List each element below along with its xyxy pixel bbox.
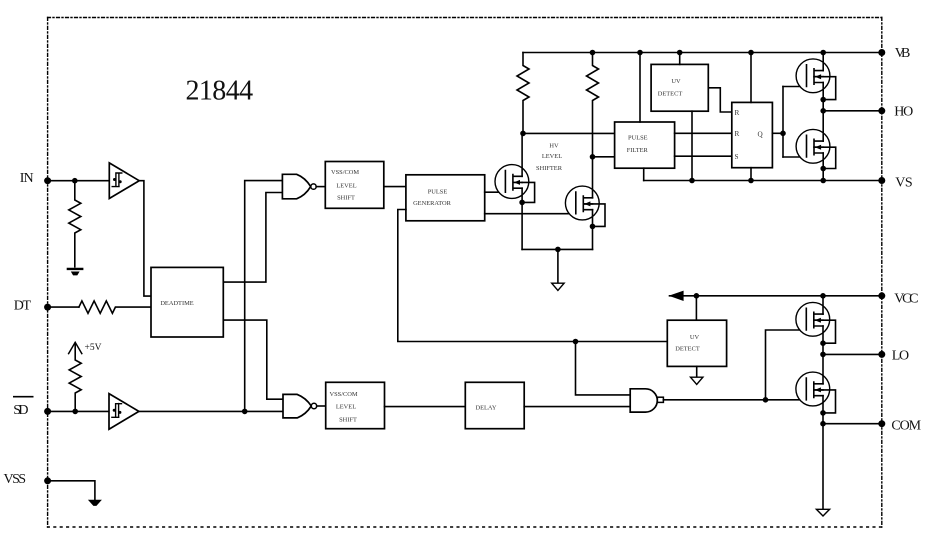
svg-text:GENERATOR: GENERATOR <box>413 200 452 207</box>
wire latch Q output <box>772 132 783 134</box>
svg-text:S: S <box>735 153 739 161</box>
wire PG out2 to Q2 gate <box>485 213 576 215</box>
Q1 source wire <box>521 188 523 249</box>
svg-text:SHIFT: SHIFT <box>339 416 357 423</box>
wire HV node A to pulse filter in1 <box>523 132 615 134</box>
VCC rail <box>670 295 882 297</box>
node B <box>590 154 596 160</box>
Q2 body loop <box>583 204 605 227</box>
svg-text:PULSE: PULSE <box>628 134 648 141</box>
wire U2 output to NOR2 input (SD line) <box>139 410 283 412</box>
svg-text:DELAY: DELAY <box>475 404 496 411</box>
wire latch bottom to VS rail <box>750 168 752 181</box>
wire U1 output to DEADTIME input <box>139 181 151 296</box>
node source join tap <box>555 247 561 253</box>
svg-text:VSS/COM: VSS/COM <box>329 391 357 398</box>
transistor M4 (LO low-side output FET) <box>796 372 830 406</box>
wire PG out1 to Q1 gate <box>485 191 506 193</box>
VS rail <box>644 180 882 182</box>
wire PF out R to latch <box>675 132 732 134</box>
resistor R_DT (horizontal) <box>79 301 151 313</box>
pin dot IN <box>44 177 51 184</box>
svg-text:PULSE: PULSE <box>428 188 448 195</box>
M4 source wire to COM <box>822 396 824 424</box>
svg-text:DETECT: DETECT <box>658 91 683 98</box>
ground (open triangle) below UV2 <box>691 377 703 384</box>
node HO <box>820 108 826 114</box>
arrow at VCC rail left end <box>669 291 684 301</box>
wire Q to M1 gate <box>783 86 807 88</box>
deadtime block <box>151 267 223 337</box>
transistor Q1 (level shift FET left) <box>495 165 529 199</box>
node latch top on VB rail <box>748 50 754 56</box>
wire G1 output to level shift 1 <box>316 186 325 188</box>
transistor Q2 (level shift FET right) <box>565 186 599 220</box>
pin dot VCC <box>878 292 885 299</box>
svg-text:SHIFTER: SHIFTER <box>536 165 563 172</box>
M3 drain wire to VCC <box>822 296 824 314</box>
svg-text:DEADTIME: DEADTIME <box>160 300 193 307</box>
wire DEADTIME out1 to NOR1 bottom input <box>223 193 282 283</box>
wire VCC rail to UV2 top <box>695 296 697 320</box>
svg-text:+5V: +5V <box>85 343 102 353</box>
svg-text:21844: 21844 <box>186 76 254 107</box>
node R2 top on VB rail <box>590 50 596 56</box>
M4 drain wire from LO <box>822 354 824 383</box>
node SD tap <box>72 409 78 415</box>
pin dot VSS <box>44 477 51 484</box>
Q1 body loop <box>522 182 535 202</box>
wire Q split vertical <box>782 87 784 158</box>
wire SD pin to buffer input <box>48 410 109 412</box>
node Q split <box>780 131 786 137</box>
pin dot SD <box>44 408 51 415</box>
wire UV detect bottom to VS rail <box>691 111 693 180</box>
node feedback branch <box>573 339 579 345</box>
wire G2 output to level shift 2 <box>317 405 326 407</box>
pin dot VB <box>878 49 885 56</box>
delay block <box>465 382 524 428</box>
svg-text:LEVEL: LEVEL <box>336 404 356 411</box>
wire COM node down to ground <box>822 424 824 509</box>
Q1 drain wire <box>521 133 523 176</box>
node M3 body-source <box>820 340 826 346</box>
pin dot HO <box>878 107 885 114</box>
hysteresis glyph in U1 <box>112 173 122 187</box>
wire tap down to ground <box>557 249 559 283</box>
node SD branch <box>242 409 248 415</box>
node COM <box>820 421 826 427</box>
wire HV node B to pulse filter in2 <box>593 156 615 158</box>
M1 source wire to HO <box>822 83 824 111</box>
M4 body loop <box>814 390 836 413</box>
svg-text:VS: VS <box>895 175 912 190</box>
ground (open triangle) below level shifters <box>552 283 564 290</box>
M2 body loop <box>814 147 836 168</box>
wire VB rail to UV detect top <box>679 53 681 65</box>
svg-text:SHIFT: SHIFT <box>337 194 355 201</box>
svg-text:DETECT: DETECT <box>675 345 700 352</box>
wire DT pin to resistor <box>48 306 79 308</box>
node M3 drain on VCC rail <box>820 293 826 299</box>
svg-text:DT: DT <box>14 298 32 313</box>
svg-text:FILTER: FILTER <box>627 147 649 154</box>
wire IN pin to buffer input <box>48 180 110 182</box>
NOR gate G2 (lower) <box>283 394 311 418</box>
ground arrow VSS <box>88 500 102 506</box>
wire SD branch up to NOR1 top input <box>245 181 283 412</box>
wire joining Q1/Q2 sources <box>522 248 592 250</box>
IC boundary dashed border left <box>47 18 49 528</box>
svg-text:SD: SD <box>13 403 28 418</box>
wire DEADTIME out2 to NOR2 top input <box>223 320 283 399</box>
wire DELAY to NAND bottom input <box>524 406 630 408</box>
wire PF bottom to VS rail <box>643 168 645 180</box>
pin dot VS <box>878 177 885 184</box>
Q2 drain wire <box>592 157 594 198</box>
node M2 body-source <box>820 166 826 172</box>
M1 body loop <box>814 77 836 100</box>
svg-text:VSS: VSS <box>4 472 27 487</box>
node M1 body-source <box>820 97 826 103</box>
ground (open triangle) below COM <box>816 509 829 516</box>
svg-text:LEVEL: LEVEL <box>542 153 562 160</box>
svg-text:UV: UV <box>690 334 700 341</box>
schmitt buffer U1 (IN) <box>109 163 139 199</box>
pin dot LO <box>878 351 885 358</box>
node IN tap <box>72 178 78 184</box>
svg-text:COM: COM <box>891 418 921 433</box>
wire Q to M2 gate <box>783 156 807 158</box>
node M4 body-source <box>820 410 826 416</box>
node UV2 top on VCC rail <box>694 293 700 299</box>
NOR gate G1 (upper) <box>282 174 310 199</box>
wire G3 output to M4 gate <box>663 399 806 401</box>
wire feedback branch to NAND top input <box>576 342 631 395</box>
node LO <box>820 352 826 358</box>
node M2 source on VS rail <box>820 178 826 184</box>
wire UV detect right to latch R1 input <box>708 88 732 112</box>
HO wire <box>823 110 882 112</box>
VSS/COM level shift block 2 <box>326 382 385 428</box>
svg-text:R: R <box>735 130 740 138</box>
hysteresis glyph in U2 <box>112 404 122 418</box>
svg-text:VB: VB <box>895 46 911 61</box>
resistor R2 (VB to HV node B) <box>587 53 599 157</box>
pin dot DT <box>44 304 51 311</box>
wire LS2 to DELAY <box>385 406 466 408</box>
pulse generator block <box>406 175 485 221</box>
node latch bottom on VS rail <box>748 178 754 184</box>
M3 source wire to LO <box>822 326 824 354</box>
ground symbol under R_IN <box>68 268 82 270</box>
LO wire <box>823 353 882 355</box>
schmitt buffer U2 (SD) <box>109 394 139 430</box>
M1 drain wire to VB <box>822 53 824 71</box>
svg-text:HV: HV <box>549 142 559 149</box>
pin dot COM <box>878 420 885 427</box>
wire gate split up to M3 gate <box>766 330 807 400</box>
node M1 drain on VB rail <box>820 50 826 56</box>
svg-text:LO: LO <box>892 348 909 363</box>
svg-text:IN: IN <box>20 171 34 186</box>
pulse filter block <box>615 122 675 168</box>
resistor R_IN (vertical) <box>69 181 81 267</box>
overline of SD <box>13 396 34 398</box>
IC boundary dashed border top <box>48 17 882 19</box>
M2 source wire to VS <box>822 153 824 181</box>
M3 body loop <box>814 320 836 343</box>
node PF top on VB rail <box>637 50 643 56</box>
svg-text:HO: HO <box>894 104 913 119</box>
wire VB rail to latch top <box>750 53 752 103</box>
svg-text:VCC: VCC <box>894 292 918 307</box>
VSS/COM level shift block 1 <box>325 162 384 209</box>
wire VB rail to pulse filter top <box>639 53 641 123</box>
COM wire <box>823 423 882 425</box>
wire PF out S to latch <box>675 155 732 157</box>
VB rail <box>523 52 882 54</box>
node Q1 source <box>519 200 525 206</box>
M2 drain wire from HO <box>822 111 824 141</box>
svg-text:LEVEL: LEVEL <box>336 183 356 190</box>
transistor M1 (HO high-side output FET) <box>796 59 830 93</box>
node gate drive split <box>763 397 769 403</box>
node UV bottom on VS rail <box>689 178 695 184</box>
wire LS1 to pulse generator <box>384 186 406 188</box>
wire UV2 bottom to ground <box>696 366 698 377</box>
transistor M3 (LO high-side output FET) <box>796 302 830 336</box>
transistor M2 (HO low-side output FET) <box>796 129 830 163</box>
node UV top on VB rail <box>677 50 683 56</box>
latch block (RS) <box>732 102 773 167</box>
IC boundary dashed border right <box>881 18 883 528</box>
svg-text:UV: UV <box>671 78 681 85</box>
IC boundary dashed border bottom <box>48 526 882 528</box>
wire PG feedback down and across <box>398 210 668 342</box>
svg-text:VSS/COM: VSS/COM <box>331 169 359 176</box>
node A <box>520 131 526 137</box>
UV detect block (high side) <box>651 64 708 111</box>
Q2 source wire <box>592 210 594 250</box>
UV detect block (low side) <box>667 320 726 366</box>
wire VSS pin to ground <box>48 481 95 500</box>
NAND gate G3 <box>630 389 657 412</box>
+5V arrow <box>69 342 82 353</box>
node Q2 source <box>590 224 596 230</box>
resistor R_SD (vertical, from +5V) <box>69 343 81 411</box>
svg-text:R: R <box>735 109 740 117</box>
resistor R1 (VB to HV node A) <box>517 53 529 134</box>
svg-text:Q: Q <box>758 130 764 138</box>
